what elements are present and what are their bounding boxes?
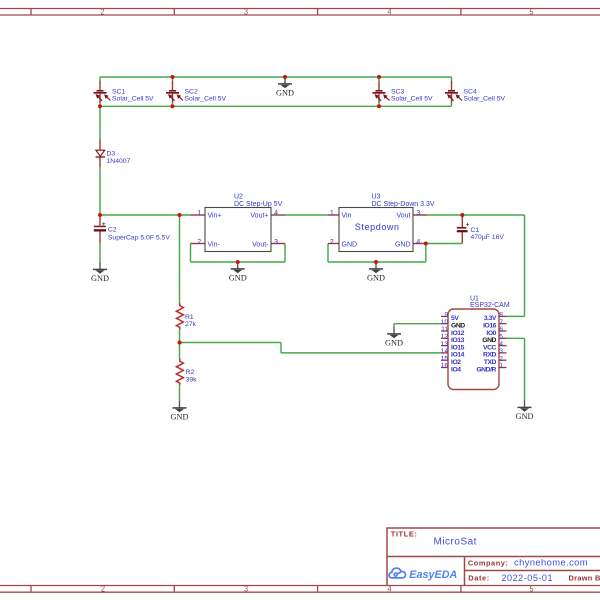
svg-text:4: 4 <box>388 584 392 594</box>
svg-text:Vout+: Vout+ <box>250 213 268 220</box>
svg-text:2: 2 <box>197 239 201 246</box>
svg-text:GND: GND <box>395 241 411 248</box>
svg-text:TITLE:: TITLE: <box>391 529 418 538</box>
svg-text:R2: R2 <box>186 369 195 376</box>
svg-text:8: 8 <box>499 312 503 319</box>
svg-text:+: + <box>466 222 470 229</box>
svg-text:4: 4 <box>416 239 420 246</box>
svg-text:6: 6 <box>499 326 503 333</box>
svg-text:Solar_Cell 5V: Solar_Cell 5V <box>464 96 506 103</box>
svg-text:1: 1 <box>197 210 201 217</box>
svg-text:DC Step-Up 5V: DC Step-Up 5V <box>234 201 283 208</box>
svg-text:C2: C2 <box>108 227 117 234</box>
svg-text:1: 1 <box>330 210 334 217</box>
svg-text:IO14: IO14 <box>451 352 465 359</box>
svg-text:IO15: IO15 <box>451 344 465 351</box>
svg-text:2: 2 <box>330 239 334 246</box>
svg-text:12: 12 <box>441 334 449 341</box>
svg-text:1N4007: 1N4007 <box>107 158 131 165</box>
svg-text:Vin+: Vin+ <box>208 213 222 220</box>
svg-text:RXD: RXD <box>483 352 497 359</box>
svg-text:IO16: IO16 <box>483 323 497 330</box>
svg-text:3: 3 <box>274 239 278 246</box>
svg-text:39k: 39k <box>186 376 198 383</box>
svg-text:R1: R1 <box>185 314 194 321</box>
svg-text:5: 5 <box>530 584 534 594</box>
svg-text:3: 3 <box>244 584 248 594</box>
svg-text:GND/R: GND/R <box>476 366 496 373</box>
svg-text:U3: U3 <box>372 194 381 201</box>
svg-text:2: 2 <box>499 355 503 362</box>
svg-text:13: 13 <box>441 341 449 348</box>
svg-text:IO13: IO13 <box>451 337 465 344</box>
svg-text:Date:: Date: <box>468 574 489 583</box>
svg-text:3.3V: 3.3V <box>484 315 497 322</box>
svg-text:3: 3 <box>244 6 248 16</box>
svg-text:1: 1 <box>499 363 503 370</box>
svg-text:2: 2 <box>101 6 105 16</box>
svg-text:SC3: SC3 <box>391 89 404 96</box>
svg-text:D3: D3 <box>107 151 116 158</box>
svg-text:16: 16 <box>441 363 449 370</box>
svg-text:GND: GND <box>482 337 496 344</box>
svg-text:27k: 27k <box>185 321 197 328</box>
svg-text:14: 14 <box>441 348 449 355</box>
svg-text:GND: GND <box>451 323 465 330</box>
svg-text:IO12: IO12 <box>451 330 465 337</box>
svg-text:IO4: IO4 <box>451 366 461 373</box>
svg-text:Vout: Vout <box>396 213 410 220</box>
svg-text:Solar_Cell 5V: Solar_Cell 5V <box>112 96 154 103</box>
svg-text:SC4: SC4 <box>464 89 477 96</box>
svg-text:ESP32-CAM: ESP32-CAM <box>470 302 510 309</box>
svg-text:Vin-: Vin- <box>208 241 221 248</box>
svg-text:Company:: Company: <box>468 559 509 568</box>
svg-text:5: 5 <box>530 6 534 16</box>
svg-text:SC1: SC1 <box>112 89 125 96</box>
svg-text:7: 7 <box>499 319 503 326</box>
svg-text:Solar_Cell 5V: Solar_Cell 5V <box>391 96 433 103</box>
svg-text:470µF 16V: 470µF 16V <box>471 234 505 241</box>
svg-text:Stepdown: Stepdown <box>355 222 400 232</box>
svg-text:+: + <box>102 221 106 228</box>
svg-text:11: 11 <box>441 326 448 333</box>
svg-text:IO0: IO0 <box>486 330 496 337</box>
svg-text:TXD: TXD <box>484 359 497 366</box>
svg-text:VCC: VCC <box>483 344 497 351</box>
svg-text:4: 4 <box>499 341 503 348</box>
svg-text:4: 4 <box>388 6 392 16</box>
svg-text:chynehome.com: chynehome.com <box>514 557 588 568</box>
svg-text:5: 5 <box>499 334 503 341</box>
svg-text:2: 2 <box>101 584 105 594</box>
svg-text:Vin: Vin <box>342 213 352 220</box>
svg-text:Vout-: Vout- <box>252 241 269 248</box>
svg-text:2022-05-01: 2022-05-01 <box>502 573 554 583</box>
svg-text:SC2: SC2 <box>185 89 198 96</box>
svg-text:IO2: IO2 <box>451 359 461 366</box>
svg-text:Drawn By:: Drawn By: <box>569 574 600 583</box>
svg-text:9: 9 <box>444 312 448 319</box>
svg-text:10: 10 <box>441 319 449 326</box>
svg-text:DC Step-Down 3.3V: DC Step-Down 3.3V <box>372 201 435 208</box>
svg-text:15: 15 <box>441 355 449 362</box>
svg-text:C1: C1 <box>471 227 480 234</box>
svg-text:SuperCap 5.0F 5.5V: SuperCap 5.0F 5.5V <box>108 234 170 241</box>
svg-text:3: 3 <box>499 348 503 355</box>
svg-text:EasyEDA: EasyEDA <box>409 569 457 581</box>
svg-text:3: 3 <box>416 210 420 217</box>
svg-text:5V: 5V <box>451 315 459 322</box>
svg-text:MicroSat: MicroSat <box>434 537 477 548</box>
svg-text:4: 4 <box>274 210 278 217</box>
svg-text:GND: GND <box>342 241 358 248</box>
svg-text:Solar_Cell 5V: Solar_Cell 5V <box>185 96 227 103</box>
svg-text:U2: U2 <box>234 194 243 201</box>
